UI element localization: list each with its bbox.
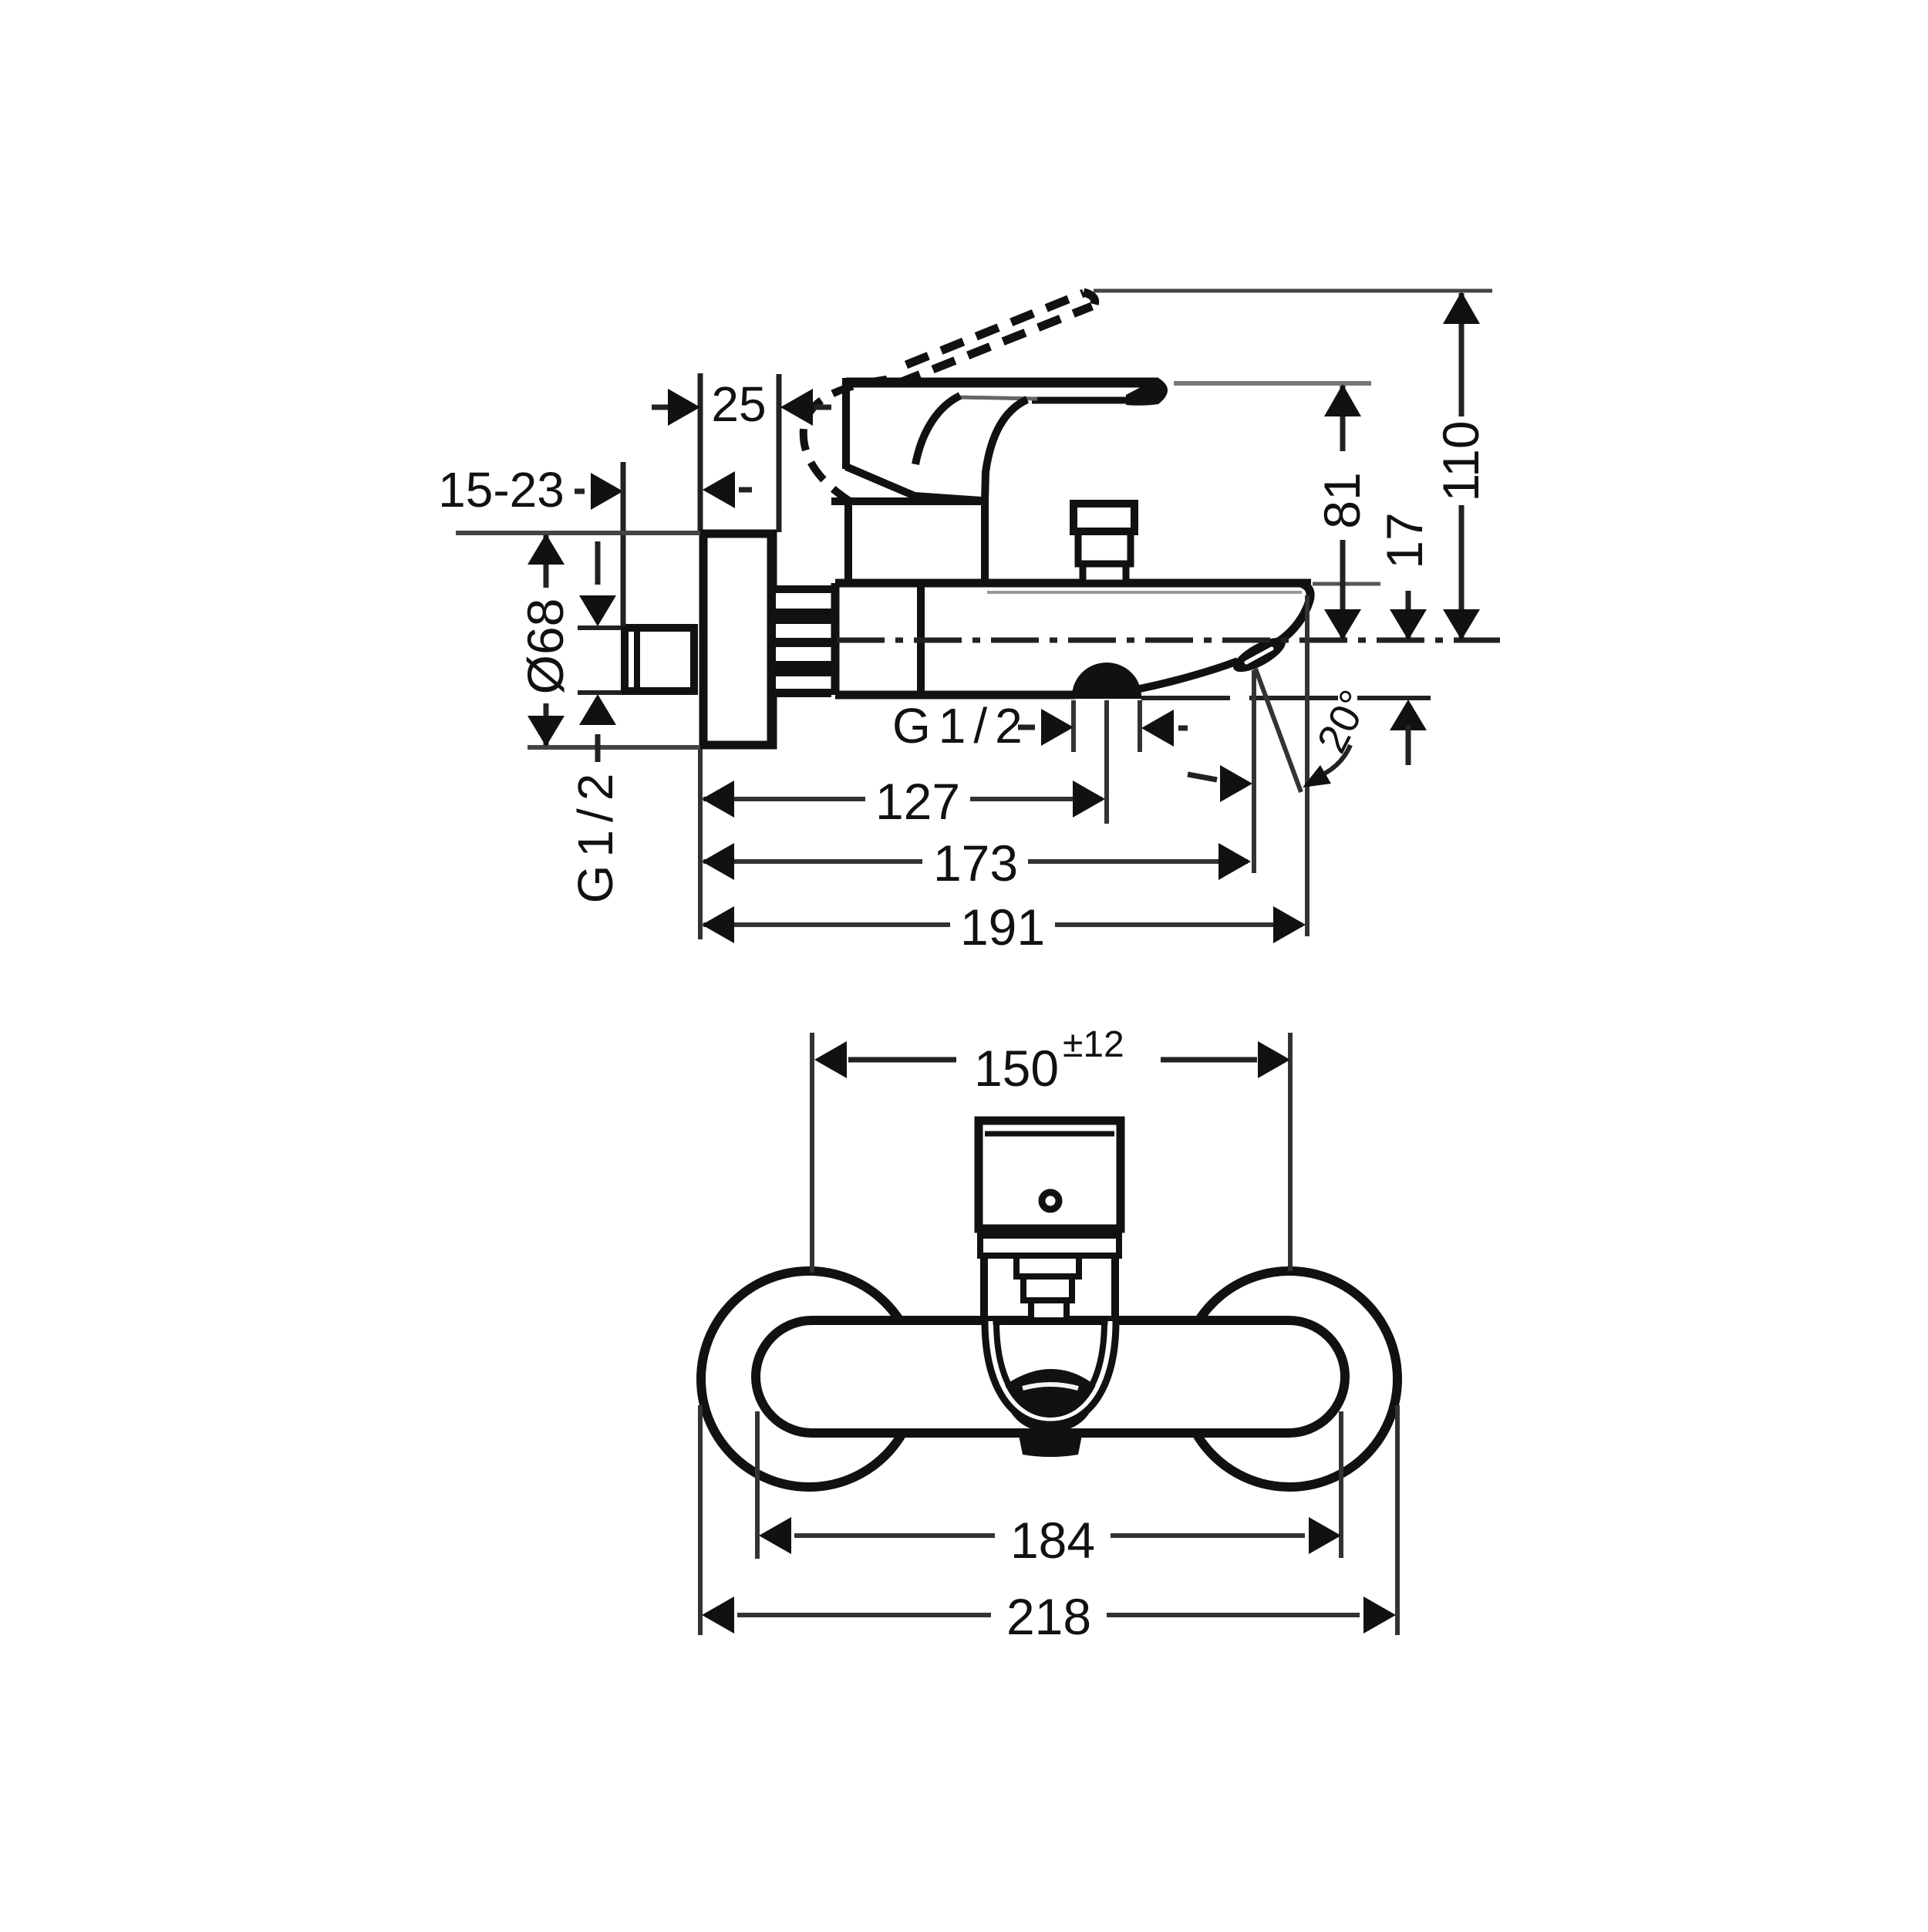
cap screw hole xyxy=(1042,1192,1059,1209)
spout front U outline xyxy=(985,1321,1116,1425)
dashed raised lever pivot curve xyxy=(804,379,887,501)
dimension 110 xyxy=(1432,292,1489,640)
svg-text:±12: ±12 xyxy=(1063,1024,1124,1065)
spout outlet dark bowl xyxy=(1003,1369,1096,1457)
20 degree angle annotation xyxy=(1188,683,1427,802)
dashed raised lever outline xyxy=(898,292,1095,383)
svg-text:81: 81 xyxy=(1313,472,1370,528)
dimension 17 xyxy=(1376,512,1433,640)
dimension 15-23 xyxy=(438,462,752,518)
20 degree inclined line xyxy=(1256,669,1301,792)
svg-text:191: 191 xyxy=(960,899,1045,956)
wall plate (escutcheon, side view) xyxy=(703,531,773,748)
dimension 173 xyxy=(702,835,1251,892)
svg-text:184: 184 xyxy=(1010,1512,1095,1569)
cartridge cap xyxy=(979,1121,1121,1229)
diverter knob on spout xyxy=(1074,504,1134,583)
plate left edge extension below (ref for 127/173/191) xyxy=(698,749,703,939)
G1/2 wall connection dimension xyxy=(568,541,623,903)
extension line from raised lever tip (for 110) xyxy=(1094,289,1492,293)
in-wall union square G1/2 xyxy=(625,626,694,693)
G1/2 spout outlet dimension xyxy=(892,698,1188,754)
dashed reference line under spout (20 deg base) xyxy=(1141,696,1431,700)
spout underside curve xyxy=(1140,661,1238,689)
spout body outline xyxy=(835,583,1311,695)
svg-text:G1/2: G1/2 xyxy=(568,766,623,904)
dimension 150 +-12 xyxy=(812,1024,1290,1273)
dimension 127 xyxy=(702,773,1105,830)
cartridge adapter stack xyxy=(980,1236,1119,1321)
plate front face extension line (for 25 dim) xyxy=(777,374,782,532)
svg-text:25: 25 xyxy=(711,376,766,432)
handle left edge xyxy=(846,378,981,501)
svg-text:150: 150 xyxy=(974,1040,1059,1097)
svg-text:Ø68: Ø68 xyxy=(517,598,574,695)
svg-text:110: 110 xyxy=(1432,420,1489,501)
centerline dash-dot xyxy=(837,638,1500,643)
dimension 81 xyxy=(1313,384,1370,640)
right escutcheon circle xyxy=(1181,1271,1397,1487)
dimension 191 xyxy=(702,899,1306,956)
shower outlet dome G1/2 xyxy=(1072,663,1141,699)
handle neck curves xyxy=(915,396,1027,501)
svg-text:218: 218 xyxy=(1006,1588,1091,1645)
svg-text:15-23: 15-23 xyxy=(438,462,565,518)
extension line from lever top (for 81) xyxy=(1174,381,1371,386)
dimension 25 xyxy=(652,376,831,432)
dimension diameter 68 xyxy=(456,533,700,747)
wall line extension above plate xyxy=(698,373,703,532)
handle lever blade xyxy=(846,378,1168,406)
left escutcheon circle xyxy=(701,1271,917,1487)
spout top tip extension line xyxy=(1305,595,1309,936)
spout body joint line xyxy=(917,583,925,695)
spout top edge extension (for 17) xyxy=(1313,582,1380,586)
svg-text:17: 17 xyxy=(1376,512,1433,568)
spout lower tip extension line xyxy=(1252,670,1256,873)
mixer body capsule xyxy=(756,1320,1345,1433)
spout tip right profile xyxy=(1279,583,1310,642)
svg-text:173: 173 xyxy=(933,835,1018,892)
dimension 218 xyxy=(700,1405,1397,1645)
svg-text:G1/2: G1/2 xyxy=(892,698,1030,754)
dimension 184 xyxy=(757,1411,1341,1569)
15-23 extension line xyxy=(621,462,626,626)
mixer body cartridge block xyxy=(831,501,985,583)
outlet center extension line xyxy=(1104,700,1109,824)
svg-text:127: 127 xyxy=(875,773,960,830)
spout outlet slanted oval xyxy=(1229,631,1290,678)
threaded connection hatch between plate and body xyxy=(776,585,831,697)
